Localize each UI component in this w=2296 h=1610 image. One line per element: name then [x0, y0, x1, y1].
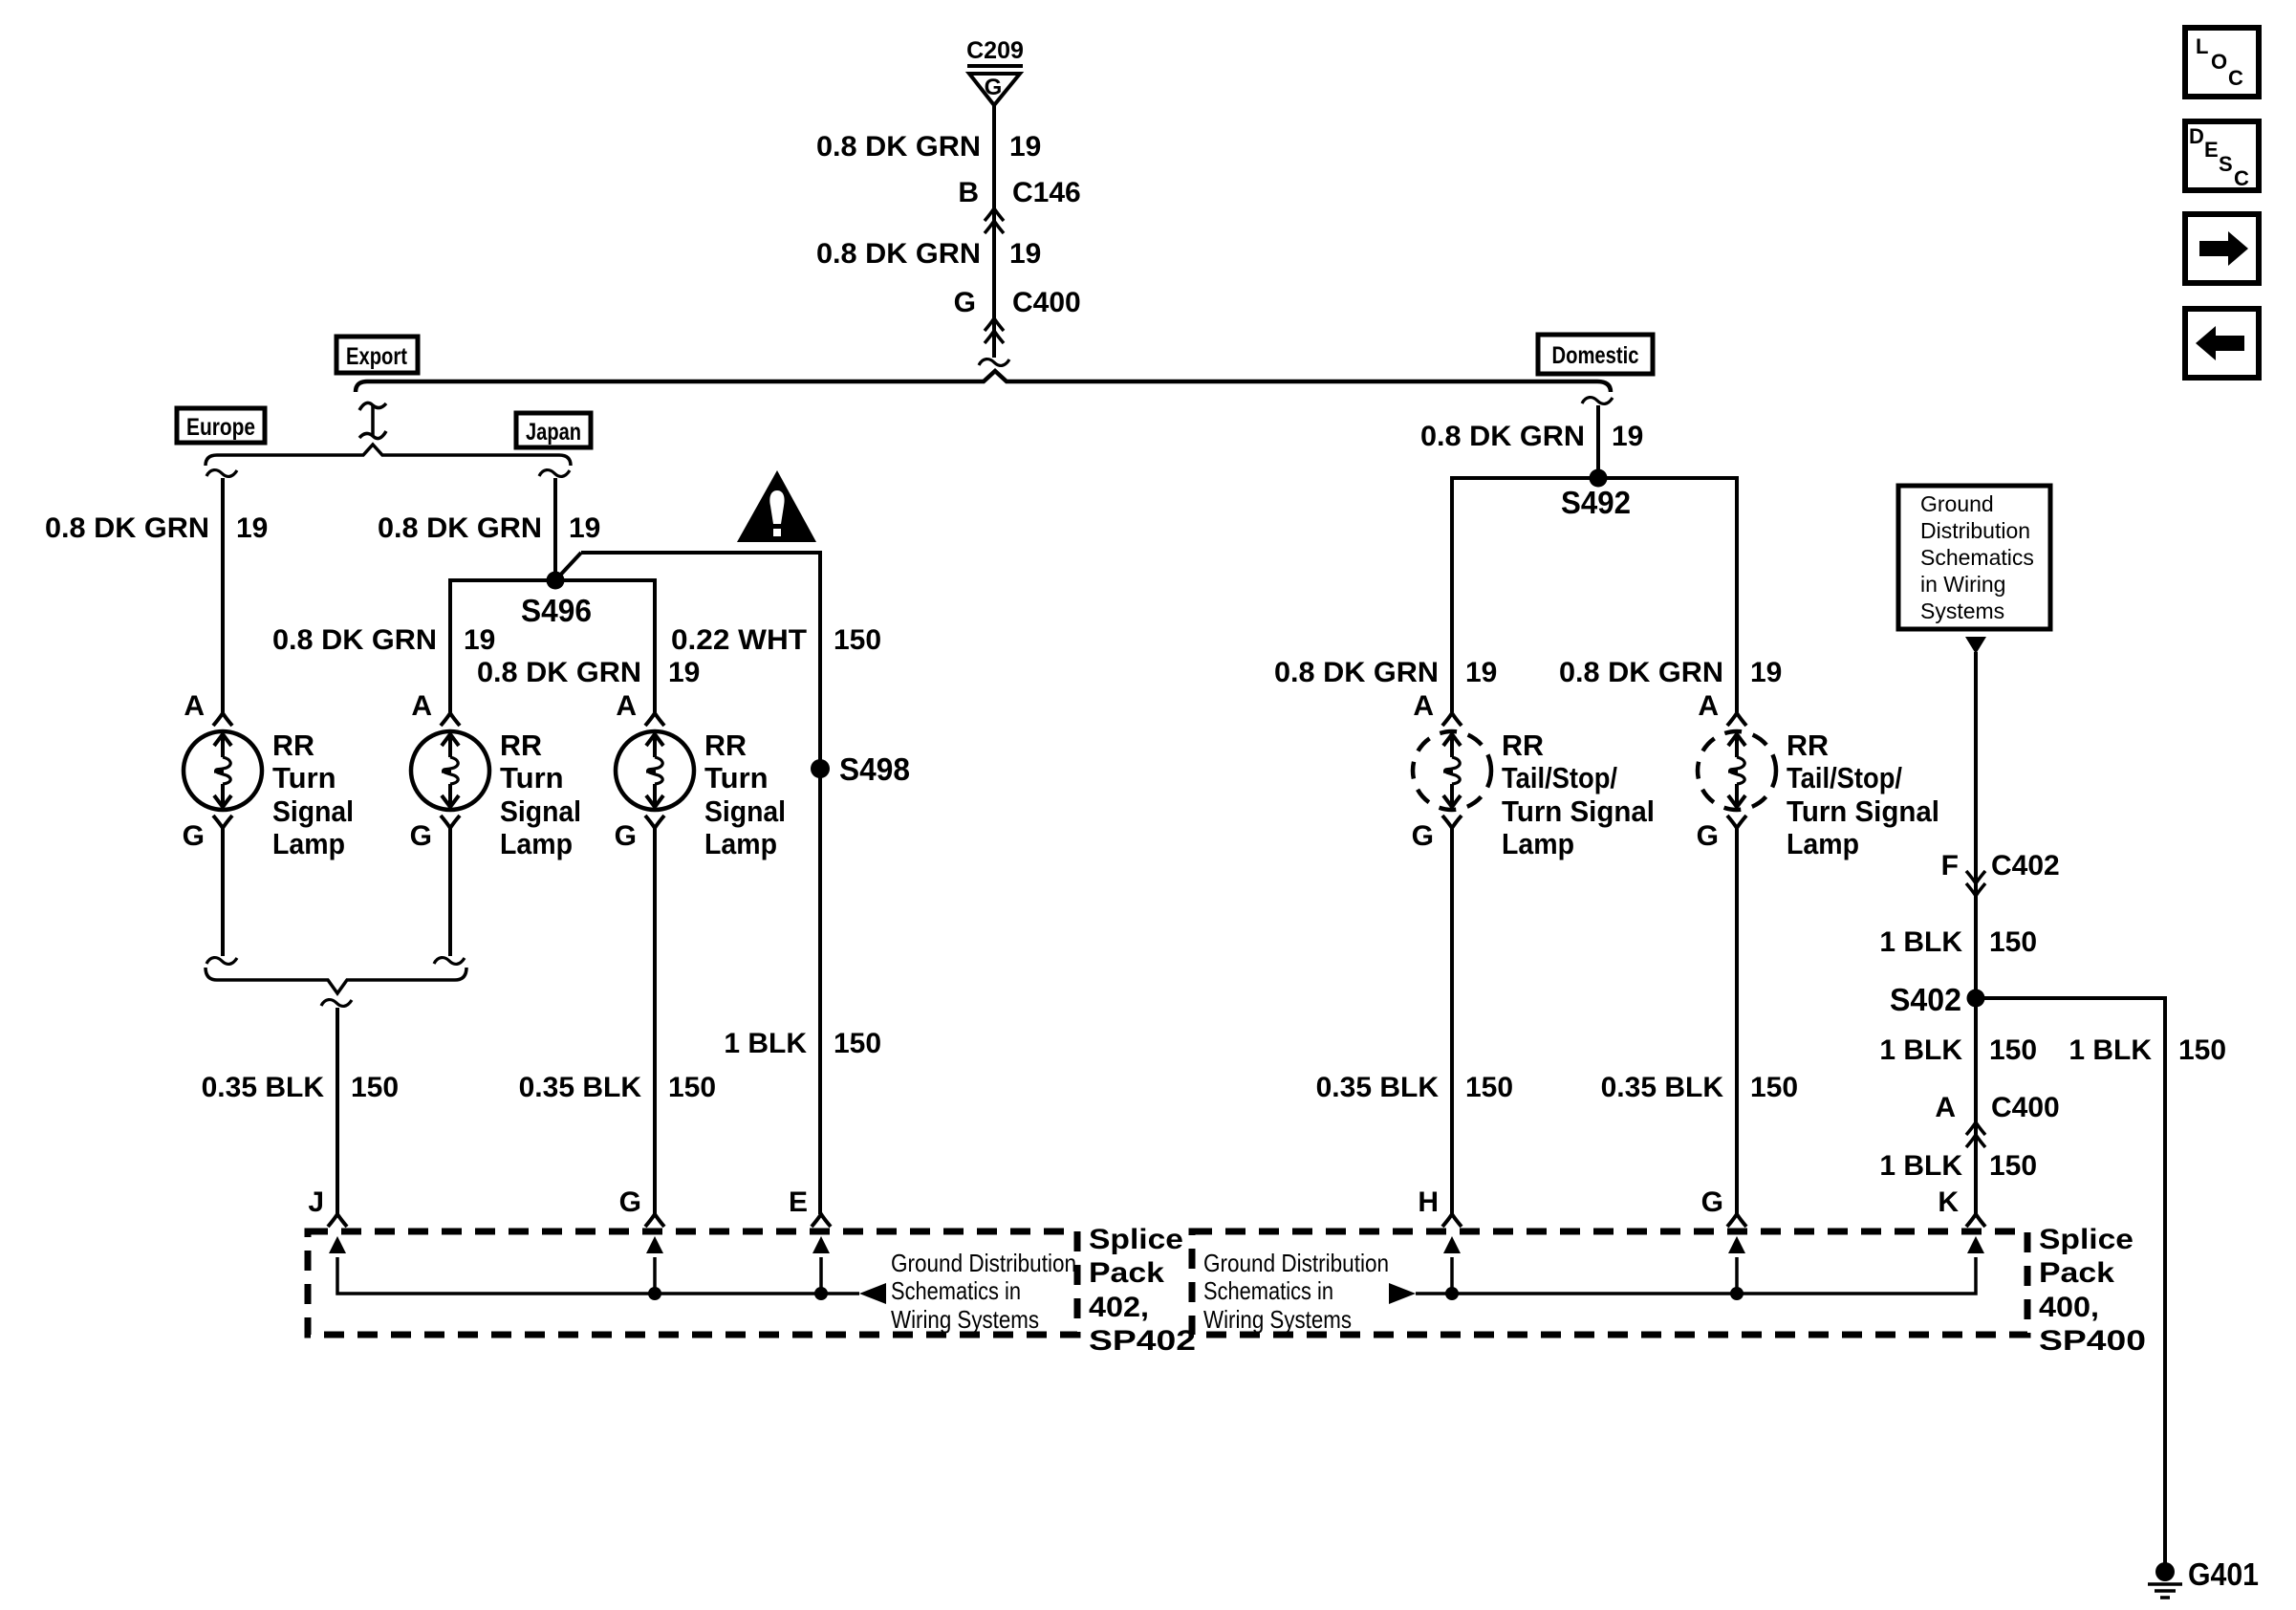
svg-text:RR: RR: [1787, 729, 1829, 762]
svg-text:G: G: [954, 287, 976, 318]
svg-text:G: G: [619, 1186, 641, 1218]
svg-text:G: G: [985, 75, 1003, 100]
wire: Japan1 lamp ground drop: [448, 828, 452, 956]
svg-text:19: 19: [569, 512, 600, 544]
svg-text:150: 150: [668, 1072, 716, 1103]
svg-text:K: K: [1938, 1186, 1959, 1218]
connector C209 symbol (triangle G): [967, 66, 1023, 105]
splice pack 402 internal bus: [329, 1236, 859, 1300]
warning triangle: [737, 470, 816, 542]
button back (left arrow): [2185, 309, 2259, 378]
wire: Japan drop to S496: [553, 478, 557, 578]
svg-text:Schematics: Schematics: [1920, 545, 2034, 570]
svg-text:O: O: [2211, 50, 2227, 74]
svg-text:A: A: [184, 690, 205, 722]
wire: Europe lamp ground drop: [221, 828, 225, 956]
svg-text:Pack: Pack: [2039, 1257, 2114, 1289]
wire: tail lamp 2 ground to splice pack pin G: [1735, 828, 1739, 1214]
splice pack SP400 pin H: [1418, 1186, 1462, 1227]
Domestic option box: [1538, 335, 1653, 374]
svg-text:Ground: Ground: [1920, 491, 1994, 516]
merge brace (Europe+Japan grounds): [206, 968, 466, 993]
svg-text:0.8 DK GRN: 0.8 DK GRN: [272, 624, 437, 656]
svg-text:1 BLK: 1 BLK: [2069, 1034, 2152, 1066]
svg-text:Japan: Japan: [526, 419, 581, 446]
svg-text:0.8 DK GRN: 0.8 DK GRN: [816, 238, 981, 270]
option break symbol under Export: [359, 402, 386, 438]
squiggle below merge brace: [321, 1000, 352, 1007]
lamp E1 RR Turn Signal Lamp (Europe) pin A: [184, 690, 232, 726]
Japan option box: [516, 413, 591, 447]
lamp D2 bulb (dashed): [1698, 731, 1776, 810]
squiggle bottom of Europe ground wire: [206, 958, 237, 965]
svg-text:G: G: [615, 820, 637, 852]
svg-text:C146: C146: [1012, 177, 1081, 208]
splice pack SP400 pin K: [1938, 1186, 1985, 1227]
svg-text:0.8 DK GRN: 0.8 DK GRN: [1559, 657, 1723, 688]
svg-text:0.8 DK GRN: 0.8 DK GRN: [1420, 421, 1585, 452]
lamp D1 RR Tail/Stop/Turn Signal Lamp pin A: [1413, 690, 1462, 726]
svg-text:RR: RR: [500, 729, 542, 762]
svg-text:19: 19: [1009, 131, 1041, 163]
svg-text:19: 19: [1465, 657, 1497, 688]
lamp J1 RR Turn Signal Lamp (Japan 1) pin A: [411, 690, 460, 726]
lamp D1 pin G: [1412, 816, 1462, 852]
Europe option box: [177, 408, 265, 443]
svg-text:0.8 DK GRN: 0.8 DK GRN: [1274, 657, 1439, 688]
splice pack 400 internal bus: [1416, 1236, 1984, 1300]
svg-text:Ground Distribution: Ground Distribution: [1203, 1249, 1389, 1277]
svg-text:Tail/Stop/: Tail/Stop/: [1502, 761, 1617, 794]
note box Ground Distribution Schematics in Wiring Systems: [1898, 486, 2050, 629]
svg-text:G: G: [410, 820, 432, 852]
wire: ground distribution drop: [1974, 652, 1978, 1214]
wire: diagonal S496 to fasten line: [555, 553, 581, 580]
wire: fasten line to warning drop: [581, 553, 820, 1214]
svg-text:Signal: Signal: [704, 794, 786, 828]
lamp E1 pin G: [183, 816, 232, 852]
svg-text:0.35 BLK: 0.35 BLK: [1601, 1072, 1724, 1103]
svg-text:C: C: [2228, 66, 2243, 90]
splice pack 400 dashed box: [1192, 1231, 2027, 1335]
svg-text:150: 150: [834, 624, 881, 656]
svg-text:Signal: Signal: [272, 794, 354, 828]
svg-text:0.8 DK GRN: 0.8 DK GRN: [477, 657, 641, 688]
lamp J1 pin G: [410, 816, 460, 852]
svg-text:G: G: [1412, 820, 1434, 852]
svg-text:S498: S498: [839, 751, 910, 787]
svg-text:S492: S492: [1561, 485, 1631, 520]
svg-text:G401: G401: [2188, 1556, 2259, 1592]
svg-text:0.35 BLK: 0.35 BLK: [202, 1072, 325, 1103]
svg-text:0.35 BLK: 0.35 BLK: [519, 1072, 642, 1103]
reference triangle (right): [1389, 1283, 1416, 1304]
svg-text:Lamp: Lamp: [500, 827, 573, 860]
svg-text:Distribution: Distribution: [1920, 518, 2030, 543]
svg-text:Export: Export: [346, 343, 408, 370]
svg-text:Turn: Turn: [704, 761, 769, 794]
svg-text:150: 150: [834, 1028, 881, 1059]
splice S492: [1590, 469, 1608, 488]
svg-text:E: E: [2204, 138, 2219, 162]
button LOC: [2185, 28, 2259, 97]
svg-text:Schematics in: Schematics in: [891, 1276, 1021, 1305]
lamp J2 bulb: [616, 731, 694, 810]
svg-text:E: E: [789, 1186, 808, 1218]
svg-text:Systems: Systems: [1920, 598, 2004, 623]
svg-text:19: 19: [1009, 238, 1041, 270]
svg-text:RR: RR: [272, 729, 314, 762]
svg-text:Domestic: Domestic: [1552, 342, 1639, 369]
svg-text:Lamp: Lamp: [1787, 827, 1859, 860]
ground G401: [2148, 1556, 2259, 1598]
lamp D1 bulb (dashed): [1413, 731, 1491, 810]
svg-text:Lamp: Lamp: [1502, 827, 1574, 860]
svg-text:in Wiring: in Wiring: [1920, 572, 2005, 597]
wire: Europe drop: [221, 478, 225, 712]
svg-text:C402: C402: [1991, 850, 2060, 881]
splice pack SP402 pin E: [789, 1186, 831, 1227]
lamp J2 pin G: [615, 816, 664, 852]
wire: Domestic drop to S492: [1596, 405, 1600, 478]
splice pack 402 dashed box: [308, 1231, 1077, 1335]
svg-text:G: G: [1701, 1186, 1723, 1218]
wire: S496 distribution rail: [450, 580, 655, 712]
squiggle above bus brace: [979, 359, 1009, 366]
svg-text:1 BLK: 1 BLK: [1879, 1034, 1962, 1066]
svg-text:Splice: Splice: [1089, 1224, 1183, 1255]
wire: S402 branch to G401: [1976, 998, 2165, 1572]
svg-text:1 BLK: 1 BLK: [1879, 1150, 1962, 1182]
svg-text:Wiring Systems: Wiring Systems: [1203, 1305, 1352, 1334]
svg-text:C400: C400: [1991, 1092, 2060, 1123]
svg-text:Lamp: Lamp: [704, 827, 777, 860]
splice pack SP402 pin G: [619, 1186, 664, 1227]
svg-text:G: G: [1697, 820, 1719, 852]
svg-text:Tail/Stop/: Tail/Stop/: [1787, 761, 1902, 794]
svg-text:RR: RR: [704, 729, 747, 762]
svg-text:H: H: [1418, 1186, 1439, 1218]
svg-text:0.8 DK GRN: 0.8 DK GRN: [378, 512, 542, 544]
svg-text:C: C: [2234, 166, 2249, 190]
svg-text:Lamp: Lamp: [272, 827, 345, 860]
svg-text:C400: C400: [1012, 287, 1081, 318]
wire: tail lamp 1 ground to splice pack pin H: [1450, 828, 1454, 1214]
svg-text:Pack: Pack: [1089, 1257, 1164, 1289]
svg-text:0.8 DK GRN: 0.8 DK GRN: [816, 131, 981, 163]
wire: merged ground to splice pack pin J: [336, 1008, 339, 1214]
svg-text:150: 150: [2178, 1034, 2226, 1066]
svg-text:150: 150: [1989, 926, 2037, 958]
bus brace (Export/Domestic options): [356, 371, 1611, 392]
splice pack SP400 pin G: [1701, 1186, 1746, 1227]
wire: S492 distribution rail: [1452, 478, 1737, 712]
svg-text:Turn: Turn: [500, 761, 564, 794]
svg-text:Turn: Turn: [272, 761, 336, 794]
reference triangle (left): [859, 1283, 886, 1304]
svg-text:A: A: [1413, 690, 1434, 722]
wire: Japan2 lamp ground to splice pack pin G: [653, 828, 657, 1214]
squiggle top of Domestic wire: [1582, 398, 1613, 404]
svg-text:0.35 BLK: 0.35 BLK: [1316, 1072, 1440, 1103]
svg-text:1 BLK: 1 BLK: [724, 1028, 807, 1059]
squiggle bottom of Japan1 ground wire: [434, 958, 465, 965]
lamp E1 bulb: [184, 731, 262, 810]
svg-text:400,: 400,: [2039, 1292, 2099, 1323]
svg-text:A: A: [1698, 690, 1719, 722]
lamp J1 bulb: [411, 731, 489, 810]
svg-text:Wiring Systems: Wiring Systems: [891, 1305, 1039, 1334]
svg-text:A: A: [616, 690, 637, 722]
svg-text:150: 150: [1989, 1034, 2037, 1066]
svg-text:Turn Signal: Turn Signal: [1787, 794, 1939, 828]
squiggle top of Japan wire: [539, 470, 570, 477]
svg-text:Schematics in: Schematics in: [1203, 1276, 1333, 1305]
svg-text:150: 150: [1465, 1072, 1513, 1103]
lamp D2 pin G: [1697, 816, 1746, 852]
svg-text:RR: RR: [1502, 729, 1544, 762]
lamp D2 RR Tail/Stop/Turn Signal Lamp pin A: [1698, 690, 1746, 726]
svg-text:SP400: SP400: [2039, 1325, 2146, 1357]
button next (right arrow): [2185, 214, 2259, 283]
svg-text:C209: C209: [966, 37, 1024, 64]
svg-text:19: 19: [1612, 421, 1643, 452]
svg-text:19: 19: [464, 624, 495, 656]
svg-text:150: 150: [351, 1072, 399, 1103]
Europe/Japan brace: [206, 445, 571, 466]
splice S496: [547, 572, 565, 590]
svg-text:19: 19: [236, 512, 268, 544]
splice S402: [1967, 990, 1985, 1008]
svg-text:D: D: [2189, 124, 2204, 148]
svg-text:19: 19: [668, 657, 700, 688]
lamp J2 RR Turn Signal Lamp (Japan 2) pin A: [616, 690, 664, 726]
wire: C209 down to bus brace: [992, 104, 996, 358]
splice S498: [811, 759, 830, 778]
reference triangle (down) under note box: [1965, 637, 1986, 654]
svg-text:150: 150: [1750, 1072, 1798, 1103]
svg-text:S402: S402: [1890, 982, 1961, 1017]
squiggle top of Europe wire: [206, 470, 237, 477]
button DESC: [2185, 121, 2259, 190]
svg-text:S496: S496: [521, 593, 592, 628]
svg-text:150: 150: [1989, 1150, 2037, 1182]
svg-text:S: S: [2219, 152, 2233, 176]
svg-text:Europe: Europe: [186, 414, 255, 441]
svg-text:1 BLK: 1 BLK: [1879, 926, 1962, 958]
svg-text:G: G: [183, 820, 205, 852]
svg-text:Turn Signal: Turn Signal: [1502, 794, 1655, 828]
splice pack SP402 pin J: [308, 1186, 347, 1227]
svg-text:A: A: [1935, 1092, 1956, 1123]
svg-text:Ground Distribution: Ground Distribution: [891, 1249, 1076, 1277]
svg-text:19: 19: [1750, 657, 1782, 688]
svg-text:F: F: [1941, 850, 1959, 881]
svg-text:B: B: [958, 177, 979, 208]
svg-text:SP402: SP402: [1089, 1325, 1196, 1357]
svg-text:Splice: Splice: [2039, 1224, 2134, 1255]
svg-text:402,: 402,: [1089, 1292, 1149, 1323]
svg-text:0.8 DK GRN: 0.8 DK GRN: [45, 512, 209, 544]
Export option box: [336, 337, 418, 373]
svg-text:Signal: Signal: [500, 794, 581, 828]
svg-text:L: L: [2196, 34, 2208, 58]
svg-text:A: A: [411, 690, 432, 722]
svg-text:0.22 WHT: 0.22 WHT: [671, 624, 807, 656]
svg-text:J: J: [308, 1186, 324, 1218]
